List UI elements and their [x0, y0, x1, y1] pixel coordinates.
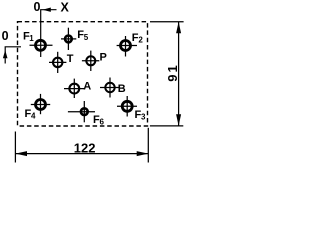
svg-text:P: P	[100, 52, 107, 64]
origin marker X axis	[34, 0, 70, 57]
mounting surface dashed outline	[18, 22, 148, 126]
hole F5	[61, 28, 89, 50]
hole F2	[117, 32, 144, 57]
svg-text:122: 122	[74, 141, 96, 156]
svg-text:B: B	[118, 83, 126, 95]
svg-text:0: 0	[34, 0, 41, 14]
hole F4	[25, 94, 51, 121]
dimension 122 (bottom)	[15, 128, 148, 163]
svg-text:T: T	[67, 53, 74, 65]
hole A	[64, 79, 91, 98]
dimension 91 (right)	[150, 22, 184, 126]
svg-text:6: 6	[100, 118, 105, 127]
svg-text:X: X	[61, 0, 70, 14]
hole F1	[23, 31, 53, 51]
hole F6	[68, 101, 105, 127]
hole P	[82, 51, 107, 71]
svg-text:91: 91	[165, 63, 180, 81]
svg-text:4: 4	[31, 111, 36, 120]
svg-text:0: 0	[2, 29, 9, 43]
svg-text:3: 3	[141, 113, 146, 122]
hole B	[100, 78, 126, 98]
origin marker Y axis	[2, 29, 21, 63]
svg-text:2: 2	[138, 36, 143, 45]
hole F3	[117, 96, 146, 122]
svg-text:A: A	[83, 81, 91, 93]
svg-text:5: 5	[84, 33, 89, 42]
hole T	[49, 52, 74, 73]
svg-text:1: 1	[29, 34, 34, 43]
